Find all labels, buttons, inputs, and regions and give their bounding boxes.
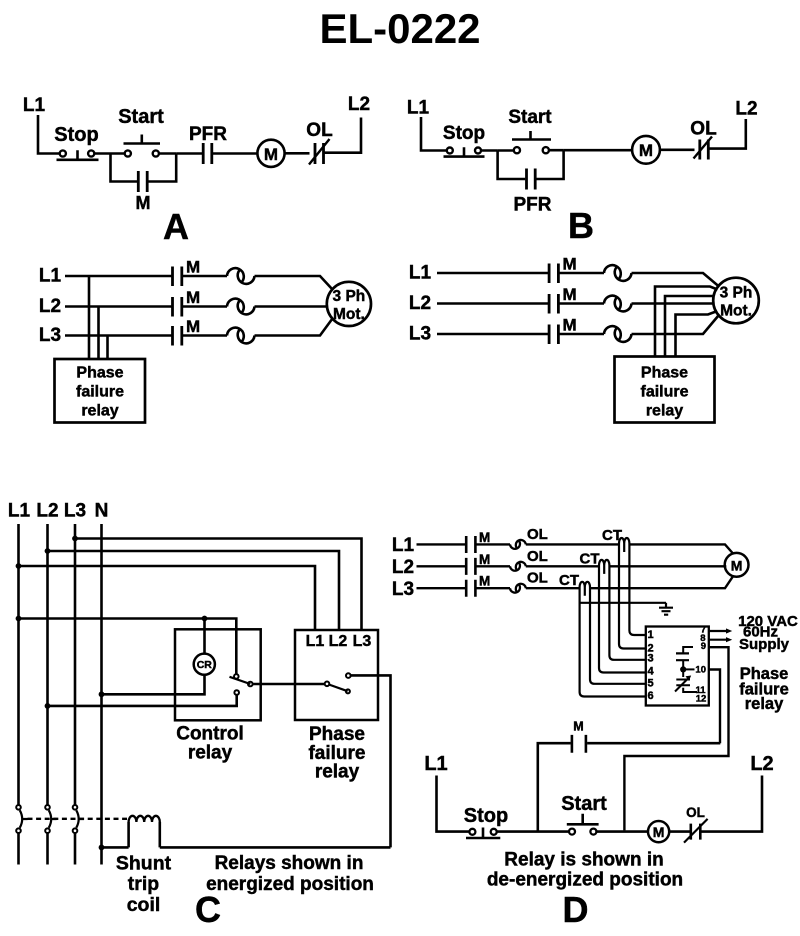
svg-text:M: M	[264, 145, 278, 164]
wire branch-to-PFR (A)	[176, 152, 202, 155]
svg-text:de-energized position: de-energized position	[487, 870, 683, 891]
svg-text:N: N	[95, 501, 109, 522]
svg-text:1: 1	[648, 629, 654, 641]
wire M-to-OL L1 (D)	[475, 543, 510, 545]
svg-text:C: C	[195, 889, 221, 930]
overload heater pole 2 (D)	[510, 562, 526, 571]
junction L3 feed (C)	[72, 536, 78, 542]
arrow pin 8 supply (D)	[709, 639, 726, 641]
coil M (D)	[648, 821, 669, 842]
wire L3 line (D)	[417, 587, 466, 589]
wire OL-to-L2 (A)	[324, 118, 362, 153]
label Shunt trip coil (C)	[116, 853, 172, 917]
contact M pole 2 (D)	[466, 552, 490, 575]
wire OL-to-CT L1 (D)	[526, 543, 619, 545]
junction N feed (C)	[99, 691, 105, 697]
pushbutton Stop (D, NC)	[464, 805, 508, 838]
wire heater-to-motor L3 (power left)	[255, 319, 333, 336]
svg-text:L1: L1	[8, 501, 31, 522]
wire OL-to-CT L3 (D)	[526, 587, 580, 589]
junction L1 feed (C)	[16, 563, 22, 569]
label Phase failure relay (D)	[739, 665, 789, 713]
wire stop-to-branch (A)	[94, 152, 110, 155]
current transformer CT3 (D)	[580, 582, 590, 596]
svg-text:M: M	[563, 316, 577, 335]
breaker pole L2 (C)	[45, 805, 56, 865]
wire OL-to-CT L2 (D)	[526, 565, 599, 567]
wire heater-to-motor L2 (power right)	[632, 302, 714, 305]
wire M-to-heater L1 (power right)	[558, 272, 604, 275]
contact CR common (C)	[248, 682, 253, 687]
wire L2 column (C)	[46, 524, 49, 805]
svg-text:4: 4	[648, 666, 655, 678]
ground (D)	[659, 603, 673, 615]
contact PFR (B, NO aux)	[514, 169, 552, 216]
svg-text:L2: L2	[735, 99, 757, 120]
wire M-to-OL L3 (D)	[475, 587, 510, 589]
svg-text:OL: OL	[527, 526, 548, 543]
breaker pole L3 (C)	[73, 805, 84, 865]
svg-text:coil: coil	[127, 894, 161, 916]
svg-text:L1: L1	[407, 98, 430, 119]
wire N to shunt coil (C)	[102, 846, 129, 849]
wire L1 drop (A)	[38, 115, 60, 154]
contact OL (B, NC overload)	[690, 119, 717, 160]
contact CR arm (C)	[230, 677, 251, 684]
wire L3 column (C)	[74, 524, 77, 805]
wire CR coil to N (C)	[102, 675, 205, 695]
svg-text:failure: failure	[76, 384, 124, 401]
svg-text:M: M	[479, 574, 490, 589]
wire heater-to-motor L1 (power right)	[632, 273, 720, 287]
wire M-to-heater L2 (power right)	[558, 302, 604, 305]
svg-text:L3: L3	[64, 501, 86, 522]
svg-text:L1: L1	[424, 753, 447, 775]
wire tap 1 (power right)	[655, 287, 718, 357]
current transformer CT2 (D)	[599, 560, 609, 574]
wire M branch vertical (D)	[538, 743, 571, 831]
svg-text:Mot.: Mot.	[333, 306, 365, 323]
svg-text:3 Ph: 3 Ph	[720, 285, 753, 302]
wire L1 line (power left)	[65, 275, 172, 278]
wire stop-to-start (D)	[497, 830, 569, 833]
contact M pole 2 (power right)	[549, 285, 577, 314]
svg-text:10: 10	[695, 664, 706, 675]
svg-text:relay: relay	[188, 743, 233, 764]
pushbutton Start (B, NO)	[498, 107, 564, 153]
svg-text:Start: Start	[561, 793, 607, 815]
contact M pole 3 (power right)	[549, 316, 577, 345]
svg-text:Stop: Stop	[464, 805, 508, 827]
wire CT1 secondary to pin 2 (D)	[619, 546, 646, 649]
wire M-to-heater L1 (power left)	[182, 275, 227, 278]
wire L2 feed to relay terminal L2 (C)	[48, 551, 340, 630]
svg-text:Phase: Phase	[309, 724, 365, 745]
overload heater pole 2 (power right)	[604, 296, 632, 312]
svg-text:Phase: Phase	[641, 365, 688, 382]
svg-text:D: D	[563, 889, 589, 930]
pushbutton Start (A, NO)	[111, 106, 177, 157]
svg-text:L1: L1	[23, 95, 46, 116]
contact PFR upper fixed (C)	[346, 673, 351, 678]
wire L1 feed to relay terminal L1 (C)	[19, 566, 316, 630]
control relay box (C)	[175, 629, 261, 720]
svg-text:A: A	[163, 206, 189, 247]
wire CT-to-motor L2 (D)	[609, 565, 726, 567]
contact M pole 2 (power left)	[173, 288, 201, 317]
wire L2 line (power left)	[65, 305, 172, 308]
svg-text:M: M	[563, 285, 577, 304]
wire heater-to-motor L3 (power right)	[632, 316, 719, 335]
svg-text:L3: L3	[409, 324, 431, 345]
motor 3-phase (power left)	[327, 282, 371, 326]
junction internal pin 10 (D relay)	[680, 666, 686, 672]
wire L3 line (power right)	[437, 333, 548, 336]
svg-text:energized position: energized position	[206, 874, 374, 895]
wire tap 2 (power right)	[665, 296, 714, 357]
svg-text:CR: CR	[197, 659, 213, 671]
svg-text:M: M	[573, 720, 583, 734]
pushbutton Stop (B, NC)	[443, 123, 485, 157]
svg-text:Relays shown in: Relays shown in	[215, 853, 364, 874]
svg-text:L3: L3	[353, 633, 372, 650]
wire tap 3 (power right)	[676, 312, 717, 357]
svg-text:OL: OL	[686, 805, 705, 820]
contact OL (A, NC overload)	[306, 120, 333, 165]
svg-text:M: M	[731, 558, 743, 574]
wire L1 column (C)	[17, 524, 20, 805]
wire CT-to-motor L3 (D)	[590, 576, 733, 588]
wire L1 drop (D rung)	[437, 776, 470, 832]
phase failure relay box (power left)	[55, 359, 146, 423]
contact OL (D, NC overload)	[684, 805, 708, 843]
wire CR coil stem (C)	[203, 619, 206, 654]
wire tap L1 (power left)	[88, 276, 91, 359]
wire L1 line (power right)	[437, 272, 548, 275]
wire M aux to pin10 wire (D)	[587, 742, 720, 745]
svg-text:M: M	[136, 193, 151, 213]
junction L1 lower feed (C)	[16, 616, 22, 622]
svg-text:L3: L3	[39, 325, 61, 346]
overload heater pole 1 (power right)	[604, 265, 632, 281]
wire L2 line (power right)	[437, 302, 548, 305]
wire pin 10 to M branch (D)	[709, 670, 720, 744]
junction L2 feed (C)	[45, 548, 51, 554]
svg-text:EL-0222: EL-0222	[319, 5, 480, 52]
contact M pole 1 (power right)	[549, 255, 577, 284]
contact M pole 1 (D)	[466, 530, 490, 553]
svg-text:relay: relay	[81, 403, 118, 420]
svg-text:M: M	[653, 824, 665, 840]
contact M pole 3 (D)	[466, 574, 490, 597]
svg-text:M: M	[186, 288, 200, 307]
wire holding branch (B)	[498, 150, 564, 179]
varistor internal (D relay)	[675, 669, 697, 692]
contact CR upper fixed (C)	[234, 674, 239, 679]
wire CT-to-motor L1 (D)	[629, 544, 733, 553]
svg-text:L1: L1	[409, 263, 432, 284]
label Phase failure relay (C)	[308, 724, 365, 783]
motor 3-phase (power right)	[713, 278, 759, 324]
svg-text:Control: Control	[176, 724, 244, 745]
contact M aux (D)	[572, 720, 586, 753]
wire tap L3 (power left)	[106, 336, 109, 360]
wire coil-to-OL (B)	[660, 149, 695, 152]
wire M-to-heater L3 (power right)	[558, 333, 604, 336]
svg-text:Mot.: Mot.	[720, 303, 752, 320]
svg-text:L2: L2	[329, 633, 348, 650]
wire L1 line (D)	[417, 543, 466, 545]
label 120 VAC 60Hz Supply (D)	[738, 613, 798, 653]
shunt trip coil (C)	[129, 816, 160, 848]
svg-text:CT: CT	[559, 572, 579, 589]
wire branch-to-coil (B)	[564, 149, 632, 152]
phase failure relay box (D)	[646, 627, 709, 706]
svg-text:L1: L1	[392, 535, 415, 556]
overload heater pole 3 (D)	[510, 584, 526, 593]
contact M pole 3 (power left)	[173, 317, 201, 346]
contact PFR (A, NO)	[189, 124, 227, 164]
wire to ground (D)	[580, 602, 666, 604]
wire N column (C)	[100, 524, 103, 865]
svg-text:PFR: PFR	[189, 124, 227, 145]
contact M (A, NO aux)	[136, 171, 151, 213]
svg-text:L2: L2	[348, 94, 370, 115]
wire CT3 secondary to pin 5 (D)	[590, 590, 646, 684]
junction N bottom (C)	[99, 845, 105, 851]
coil M (B, motor starter)	[632, 136, 660, 164]
wire coil-to-OL (D)	[669, 830, 689, 833]
coil CR (C, control relay)	[194, 654, 215, 675]
svg-text:failure: failure	[640, 384, 688, 401]
wire tap L2 (power left)	[97, 307, 100, 360]
wire L1 feed to control relay contact (C)	[19, 619, 237, 675]
motor M (D)	[725, 553, 749, 577]
wire coil-to-OL (A)	[285, 152, 310, 155]
wire CR common to PFR (C)	[253, 683, 325, 686]
breaker pole L1 (C)	[16, 805, 27, 865]
svg-text:9: 9	[701, 641, 706, 652]
svg-text:relay: relay	[745, 695, 784, 713]
overload heater pole 3 (power right)	[604, 326, 632, 342]
svg-text:Phase: Phase	[76, 365, 123, 382]
svg-text:Stop: Stop	[443, 123, 485, 144]
wire shunt coil to PFR output (C)	[160, 846, 391, 849]
wire PFR output down right side (C)	[351, 675, 391, 847]
wire OL-to-L2 (D)	[700, 776, 762, 832]
svg-text:Start: Start	[118, 106, 164, 128]
caption Relays shown in energized position (C)	[206, 853, 374, 895]
overload heater pole 3 (power left)	[227, 328, 255, 344]
wire L2 line (D)	[417, 565, 466, 567]
mechanical linkage dashed (C)	[28, 818, 128, 820]
svg-text:L2: L2	[36, 501, 58, 522]
wire CT3 secondary to pin 6 (D)	[580, 590, 646, 697]
svg-text:OL: OL	[306, 120, 333, 141]
wire M-to-heater L3 (power left)	[182, 334, 227, 337]
svg-text:CT: CT	[602, 527, 622, 544]
svg-text:relay: relay	[315, 762, 360, 783]
wire CT2 secondary to pin 3 (D)	[609, 568, 645, 660]
svg-text:Relay is shown in: Relay is shown in	[504, 850, 663, 871]
svg-text:L3: L3	[392, 579, 414, 600]
svg-text:PFR: PFR	[514, 195, 552, 216]
wire heater-to-motor L2 (power left)	[255, 305, 328, 308]
pushbutton Start (D, NO)	[561, 793, 607, 835]
svg-text:B: B	[568, 205, 594, 246]
arrow pin 7 supply (D)	[709, 630, 726, 632]
pushbutton Stop (A, NC)	[54, 124, 98, 160]
wire start-to-coil (D)	[596, 830, 648, 833]
svg-text:Shunt: Shunt	[116, 853, 172, 875]
wire pin 9 to rung (D)	[624, 647, 728, 830]
svg-text:OL: OL	[527, 548, 548, 565]
svg-text:Start: Start	[508, 107, 552, 128]
contact PFR left (C)	[325, 682, 330, 687]
svg-text:L1: L1	[39, 266, 62, 287]
phase failure relay box (power right)	[615, 357, 715, 423]
wire internal pin 10 stub (D relay)	[683, 668, 694, 670]
phase failure relay box (C)	[295, 630, 378, 720]
svg-text:L2: L2	[409, 293, 431, 314]
svg-text:3: 3	[648, 653, 654, 665]
wire M-to-OL L2 (D)	[475, 565, 510, 567]
coil M (A, motor starter)	[257, 140, 284, 167]
svg-text:Supply: Supply	[739, 636, 790, 653]
wire holding branch (A)	[111, 154, 177, 182]
svg-text:L2: L2	[392, 557, 414, 578]
wire CR lower fixed to L2 (C)	[48, 695, 237, 706]
svg-text:12: 12	[696, 693, 707, 704]
svg-text:M: M	[479, 552, 490, 567]
overload heater pole 1 (power left)	[227, 268, 255, 284]
svg-text:5: 5	[648, 677, 654, 689]
junction CR coil stem (C)	[202, 616, 208, 622]
svg-text:M: M	[563, 255, 577, 274]
svg-text:Stop: Stop	[54, 124, 98, 146]
wire OL-to-L2 (B)	[708, 119, 746, 149]
svg-text:CT: CT	[580, 551, 600, 568]
svg-text:M: M	[639, 141, 653, 160]
overload heater pole 1 (D)	[510, 540, 526, 549]
contact PFR arm (C)	[329, 685, 347, 692]
overload heater pole 2 (power left)	[227, 299, 255, 315]
wire L3 line (power left)	[65, 334, 172, 337]
wire CT1 secondary to pin 1 (D)	[629, 546, 645, 635]
capacitor internal (D relay)	[676, 647, 693, 669]
svg-text:M: M	[186, 258, 200, 277]
wire M-to-heater L2 (power left)	[182, 305, 227, 308]
svg-text:relay: relay	[646, 403, 683, 420]
contact M pole 1 (power left)	[173, 258, 201, 287]
current transformer CT1 (D)	[619, 538, 629, 552]
caption Relay is shown in de-energized position (D)	[487, 850, 683, 891]
svg-text:M: M	[186, 317, 200, 336]
svg-text:OL: OL	[527, 570, 548, 587]
svg-text:L2: L2	[750, 753, 773, 775]
contact CR lower fixed (C)	[234, 690, 239, 695]
junction L2 lower feed (C)	[45, 703, 51, 709]
wire PFR-to-coil (A)	[212, 152, 257, 155]
wire L3 feed to relay terminal L3 (C)	[75, 539, 362, 631]
wire heater-to-motor L1 (power left)	[255, 276, 333, 290]
svg-text:3 Ph: 3 Ph	[333, 288, 366, 305]
wire L1 drop (B)	[421, 117, 447, 151]
svg-text:M: M	[479, 530, 490, 545]
wire stop-to-branch (B)	[481, 149, 498, 152]
svg-text:trip: trip	[128, 873, 160, 895]
svg-text:6: 6	[648, 690, 654, 702]
svg-text:OL: OL	[690, 119, 717, 140]
wire CT2 secondary to pin 4 (D)	[599, 568, 646, 673]
svg-text:L1: L1	[306, 633, 325, 650]
contact PFR arm tip (C)	[346, 689, 350, 693]
svg-text:L2: L2	[39, 296, 61, 317]
label Control relay (C)	[176, 724, 244, 764]
